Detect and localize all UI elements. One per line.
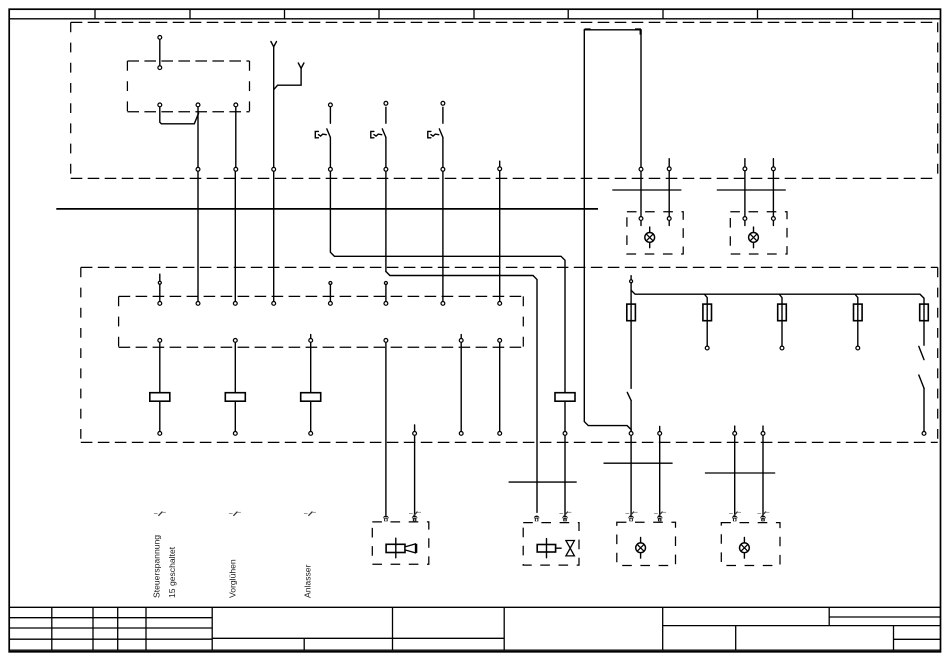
node F4 end — [856, 346, 860, 350]
node H4 wire2 node — [761, 432, 765, 436]
wire H2 lead2 — [772, 171, 774, 216]
fuse F2 — [703, 304, 712, 321]
pushbutton S3 — [442, 107, 444, 123]
svg-text:15 geschaltet: 15 geschaltet — [167, 546, 177, 598]
node Q1 pin c — [234, 103, 238, 107]
wire W6 stub — [460, 335, 462, 338]
node H3 wire1 node — [629, 432, 633, 436]
wire fuse bus tap 2 — [704, 294, 707, 304]
node K3 coil bottom — [309, 432, 313, 436]
wire S1 stub — [329, 285, 331, 302]
node Q1 pin b — [196, 103, 200, 107]
fuse F1 — [627, 304, 636, 321]
wire H1 lead2 — [668, 171, 670, 216]
wire F1 feed — [630, 283, 632, 304]
wire b leg to terminal row — [197, 172, 199, 301]
wire F5 lower — [923, 321, 925, 346]
wire W5 stub top — [499, 161, 501, 166]
relay coil K1 — [159, 343, 161, 393]
wire Q1 c leg — [235, 107, 237, 167]
node X1 terminal 7 — [441, 302, 445, 306]
node X1 terminal 2 — [196, 302, 200, 306]
glyph contact mark label1 — [154, 513, 158, 515]
horn B1 — [386, 544, 405, 552]
open connector fork Y2 — [298, 63, 304, 68]
node S3 top — [441, 101, 445, 105]
wire H1 lead2 stub — [668, 159, 670, 167]
dashed enclosure terminal strip X1 — [119, 295, 524, 297]
glyph contact mark V1a — [559, 513, 563, 515]
node W6 end — [459, 432, 463, 436]
wire starter loop left leg — [584, 30, 631, 431]
contact blade S5b — [919, 375, 924, 388]
wire fuse bus — [631, 290, 924, 304]
wire F4 lower — [857, 321, 859, 346]
wire branch S1 to valve feed — [330, 252, 565, 392]
node H2 pin 1 — [743, 217, 747, 221]
node W5 lower terminal — [498, 339, 502, 343]
wire H3 lead1 — [630, 436, 632, 515]
wire F2 lower — [706, 321, 708, 346]
node F2 end — [705, 346, 709, 350]
wire H4 lead1 — [734, 436, 736, 515]
node W5 upper — [498, 167, 502, 171]
node X1 terminal 1 — [158, 302, 162, 306]
wire S3 lower run — [442, 172, 444, 301]
solenoid valve coil — [537, 545, 555, 553]
wire H2 lead1 — [744, 171, 746, 216]
node Q1 b lower — [196, 167, 200, 171]
node W7 node — [413, 432, 417, 436]
wire H1 lead1 — [640, 172, 642, 217]
wire H2 pin1 stub — [744, 221, 746, 226]
wire H4 lead2 — [762, 436, 764, 515]
node F3 end — [780, 346, 784, 350]
contact blade S5a — [919, 346, 924, 359]
fuse F5 — [920, 304, 929, 321]
wire fuse bus tap 3 — [779, 294, 782, 304]
node H3 wire2 node — [658, 432, 662, 436]
node S2 top — [384, 101, 388, 105]
wire Y1 branch — [274, 68, 301, 89]
wire crossing plug X6 — [705, 472, 775, 474]
connector pin horn right — [412, 515, 418, 518]
fuse F3 — [778, 304, 787, 321]
wire K1 stub lower — [159, 284, 161, 301]
wire K4 to valve — [564, 436, 566, 515]
node W6 top — [459, 339, 463, 343]
relay coil K2 — [234, 343, 236, 393]
dashed enclosure horn B1 — [372, 522, 429, 564]
node H1 wire1 upper — [639, 167, 643, 171]
wire H2 lead1 stub — [744, 159, 746, 167]
glyph contact mark H4b — [757, 513, 761, 515]
wire crossing plug X5 — [604, 462, 673, 464]
node K2 coil top — [233, 339, 237, 343]
connector pin H3 left — [628, 515, 634, 518]
node X1 terminal 6 — [384, 302, 388, 306]
wire S2 stub — [385, 285, 387, 302]
indicator lamp H3 — [640, 538, 642, 543]
node S2 bottom — [384, 167, 388, 171]
wire crossing plug X4 — [717, 189, 786, 191]
connector pin H4 left — [732, 515, 738, 518]
wire H1 pin2 stub — [668, 221, 670, 226]
node F1 stub circle — [630, 280, 633, 283]
node H1 pin 1 — [639, 217, 643, 221]
node S1 stub circle — [329, 282, 332, 285]
svg-text:Steuerspannung: Steuerspannung — [152, 535, 162, 598]
glyph contact mark W7 — [409, 513, 413, 515]
wire H2 lead2 stub — [772, 159, 774, 167]
wire horn left lead — [385, 343, 387, 515]
wire K1 feed stub — [159, 274, 161, 281]
wire F1 feed stub — [630, 276, 632, 280]
node K4 lower — [563, 432, 567, 436]
node H1 wire2 upper — [667, 167, 671, 171]
wire H1 pin1 stub — [640, 221, 642, 226]
solenoid valve body — [566, 541, 575, 556]
node K1 coil bottom — [158, 432, 162, 436]
glyph contact mark label3 — [304, 513, 308, 515]
connector pin horn left — [383, 515, 389, 518]
node X1 terminal 8 — [498, 302, 502, 306]
node Y1 lower — [272, 167, 276, 171]
relay coil K3 — [310, 343, 312, 393]
wire main supply bus — [56, 208, 598, 210]
dashed enclosure middle zone — [81, 266, 938, 268]
wire battery feed — [159, 40, 161, 65]
node S3 bottom — [441, 167, 445, 171]
node Q1 c lower — [234, 167, 238, 171]
indicator lamp H4 — [743, 538, 745, 543]
pushbutton S1 — [329, 107, 331, 123]
connector pin valve left — [534, 515, 540, 518]
wire F3 lower — [781, 321, 783, 346]
node K3 coil top — [309, 339, 313, 343]
svg-text:Vorglühen: Vorglühen — [227, 559, 237, 598]
node K1 coil top — [158, 339, 162, 343]
wire branch S2 to horn feed — [386, 272, 537, 513]
connector pin H4 right — [760, 515, 766, 518]
connector pin valve right — [562, 515, 568, 518]
node Q1 pin a — [158, 103, 162, 107]
node X1 terminal 3 — [233, 302, 237, 306]
fuse F4 — [854, 304, 863, 321]
glyph contact mark H4a — [729, 513, 733, 515]
wire crossing plug X7 — [509, 481, 577, 483]
node Q1 pin 1 — [158, 66, 162, 70]
glyph contact mark H3b — [654, 513, 658, 515]
node H2 wire2 upper — [772, 167, 776, 171]
wire F1 to contact — [630, 321, 632, 389]
relay coil K4 — [555, 393, 575, 402]
wire crossing plug X3 — [612, 189, 681, 191]
node X1 terminal 4 — [272, 302, 276, 306]
wire K3 feed stub — [310, 335, 312, 338]
node S5 end — [922, 432, 926, 436]
frame column ticks — [94, 9, 96, 19]
glyph contact mark label2 — [229, 513, 233, 515]
wire W7 run — [414, 436, 416, 515]
wire W5 lower run — [499, 343, 501, 431]
drawing frame inner top line — [9, 18, 940, 20]
wire Q1 b leg — [197, 107, 199, 167]
node S2 stub circle — [384, 282, 387, 285]
wire starter loop top — [584, 30, 641, 167]
title block grid — [9, 606, 940, 608]
main switch Q1 changeover contact — [160, 107, 199, 124]
node H2 wire1 upper — [743, 167, 747, 171]
node X2 terminal a — [384, 339, 388, 343]
dashed enclosure lamp H4 — [721, 523, 780, 566]
wire H4 lead2 stub — [762, 426, 764, 431]
wire W7 stub — [414, 425, 416, 431]
glyph contact mark H3a — [626, 513, 630, 515]
indicator lamp H2 — [753, 227, 755, 232]
wire H3 lead2 stub — [659, 426, 661, 431]
wire K4 lower — [564, 401, 566, 431]
node H2 pin 2 — [772, 217, 776, 221]
wire starter loop corner ticks — [585, 28, 591, 30]
wire fuse bus tap 4 — [855, 294, 858, 304]
wire S1 lower run — [329, 172, 331, 252]
node K1 stub circle — [158, 281, 161, 284]
node S1 bottom — [329, 167, 333, 171]
connector pin H3 right — [657, 515, 663, 518]
dashed enclosure lamp H3 — [617, 522, 676, 565]
dashed enclosure main switch box — [127, 60, 249, 62]
dashed enclosure valve Y3 — [523, 523, 579, 566]
node supply terminal top — [158, 36, 162, 40]
node W5 end — [498, 432, 502, 436]
wire c leg to terminal row — [234, 172, 236, 301]
wire H4 lead1 stub — [734, 426, 736, 431]
node H4 wire1 node — [733, 432, 737, 436]
indicator lamp H1 — [649, 227, 651, 232]
wire contact to node — [630, 400, 632, 431]
contact blade under F1 — [627, 392, 631, 400]
dashed enclosure lamp H1 — [627, 212, 683, 254]
wire S2 lower run — [385, 172, 387, 272]
pushbutton S2 — [385, 107, 387, 123]
wire W5 run — [499, 171, 501, 301]
wire W6 run — [460, 343, 462, 431]
wire Y1 drop — [273, 47, 275, 167]
svg-text:Anlasser: Anlasser — [303, 564, 313, 598]
wire H3 lead2 — [659, 436, 661, 515]
node H1 pin 2 — [667, 217, 671, 221]
node S1 top — [329, 103, 333, 107]
open connector fork Y1 — [271, 42, 277, 47]
node X1 terminal 5 — [329, 302, 333, 306]
node K2 coil bottom — [233, 432, 237, 436]
wire S5 lower — [923, 388, 925, 431]
wire H2 pin2 stub — [772, 221, 774, 226]
wire Y1 to terminal row — [273, 172, 275, 301]
dashed enclosure lamp H2 — [730, 212, 787, 254]
dashed enclosure top zone — [71, 21, 938, 23]
